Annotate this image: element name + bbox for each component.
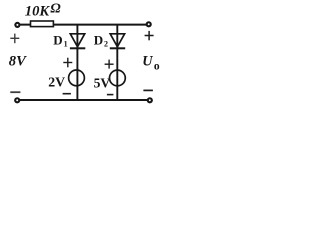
svg-text:Ω: Ω	[50, 1, 61, 16]
svg-text:8V: 8V	[9, 53, 27, 69]
svg-text:2V: 2V	[48, 74, 65, 89]
svg-text:5V: 5V	[94, 76, 111, 91]
svg-text:10K: 10K	[25, 3, 51, 19]
svg-text:U: U	[142, 54, 153, 70]
svg-text:1: 1	[64, 39, 68, 48]
svg-text:D: D	[53, 32, 62, 47]
svg-text:o: o	[154, 61, 160, 73]
svg-text:2: 2	[104, 39, 108, 48]
svg-text:D: D	[94, 32, 103, 47]
